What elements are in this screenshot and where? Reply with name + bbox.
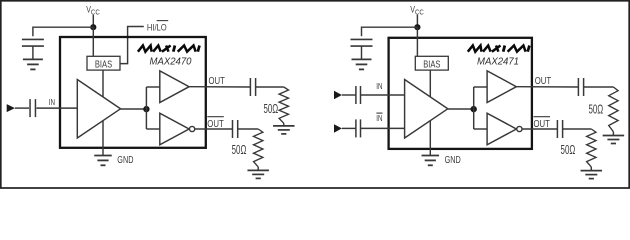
wire IN-bar cap to amplifier (MAX2471)	[361, 127, 405, 129]
amplifier triangle (MAX2470)	[77, 80, 120, 139]
label OUT-bar (MAX2471)	[534, 117, 551, 130]
wire VCC junction into BIAS (MAX2470)	[92, 27, 94, 56]
svg-text:IN: IN	[49, 97, 55, 107]
wire HI/LO control to BIAS (MAX2470)	[120, 27, 144, 64]
wire resistor to ground OUT (MAX2471)	[612, 132, 614, 136]
MAXIM logo (MAX2471)	[468, 46, 530, 52]
ground GND pin (MAX2471)	[422, 156, 440, 166]
amplifier triangle (MAX2471)	[405, 80, 448, 139]
wire IN-bar arrow to coupling cap (MAX2471)	[342, 127, 356, 129]
wire IN cap to amplifier (MAX2471)	[361, 94, 405, 96]
svg-text:BIAS: BIAS	[423, 58, 440, 69]
svg-text:50Ω: 50Ω	[561, 143, 576, 157]
junction dot output node (MAX2470)	[143, 106, 149, 112]
wire BIAS to amplifier (MAX2470)	[102, 70, 104, 97]
buffer triangle OUT (MAX2470)	[160, 71, 189, 103]
wire node to buffers vertical (MAX2470)	[145, 87, 147, 129]
buffer triangle OUT-bar (MAX2471)	[487, 113, 516, 145]
wire stub to OUT-bar buffer (MAX2470)	[146, 128, 159, 130]
wire resistor to ground OUT (MAX2470)	[283, 123, 285, 126]
svg-text:CC: CC	[91, 9, 100, 17]
wire BIAS to amplifier (MAX2471)	[429, 70, 431, 97]
capacitor OUT-bar coupling (MAX2471)	[557, 120, 562, 138]
junction dot VCC (MAX2470)	[90, 24, 96, 30]
buffer triangle OUT (MAX2471)	[487, 71, 516, 103]
wire resistor to ground OUT-bar (MAX2471)	[590, 167, 592, 171]
net VCC label (MAX2471)	[410, 5, 424, 17]
wire stub to OUT buffer (MAX2471)	[474, 86, 487, 88]
junction dot VCC (MAX2471)	[414, 24, 420, 30]
svg-text:BIAS: BIAS	[95, 58, 112, 69]
svg-text:50Ω: 50Ω	[232, 143, 247, 157]
label IN-bar (MAX2471)	[376, 113, 382, 123]
resistor 50 ohm OUT load (MAX2470)	[279, 87, 288, 123]
wire VCC junction to bypass cap (MAX2470)	[33, 27, 93, 36]
wire OUT buffer to coupling cap (MAX2471)	[516, 86, 578, 88]
capacitor OUT-bar coupling (MAX2470)	[233, 120, 238, 138]
input arrow IN-bar (MAX2471)	[334, 124, 342, 133]
wire amplifier ground pin (MAX2470)	[102, 120, 104, 155]
wire OUT-bar cap to load resistor (MAX2471)	[563, 128, 592, 130]
wire VCC junction into BIAS (MAX2471)	[416, 27, 418, 56]
svg-text:GND: GND	[445, 154, 461, 165]
wire VCC vertical to junction (MAX2470)	[92, 15, 94, 27]
wire amplifier ground pin (MAX2471)	[429, 120, 431, 155]
resistor 50 ohm OUT-bar load (MAX2470)	[254, 129, 263, 167]
net VCC label (MAX2470)	[86, 5, 100, 17]
wire amplifier output to node (MAX2471)	[448, 108, 474, 110]
capacitor IN coupling (MAX2471)	[356, 86, 361, 104]
BIAS block (MAX2471)	[415, 56, 448, 70]
frame border	[1, 1, 629, 188]
ground below bypass cap (MAX2471)	[352, 59, 372, 69]
inverter bubble (MAX2471)	[517, 126, 522, 131]
wire stub to OUT-bar buffer (MAX2471)	[474, 128, 487, 130]
inverter bubble (MAX2470)	[190, 126, 195, 131]
capacitor VCC bypass (MAX2471)	[351, 39, 373, 46]
wire VCC junction to bypass cap (MAX2471)	[362, 27, 418, 36]
wire VCC vertical to junction (MAX2471)	[416, 15, 418, 27]
label OUT-bar (MAX2470)	[207, 117, 224, 130]
junction dot output node (MAX2471)	[471, 106, 477, 112]
buffer triangle OUT-bar (MAX2470)	[160, 113, 189, 145]
capacitor IN-bar coupling (MAX2471)	[356, 119, 361, 137]
svg-text:LO: LO	[157, 22, 168, 33]
svg-text:GND: GND	[117, 154, 133, 165]
svg-text:IN: IN	[376, 81, 382, 91]
svg-text:OUT: OUT	[207, 118, 224, 129]
ground OUT load (MAX2471)	[603, 136, 625, 144]
svg-text:HI/: HI/	[147, 22, 157, 33]
ground OUT-bar load (MAX2471)	[581, 171, 603, 179]
BIAS block (MAX2470)	[87, 56, 120, 70]
wire OUT buffer to coupling cap (MAX2470)	[189, 86, 250, 88]
svg-text:OUT: OUT	[534, 118, 551, 129]
wire amplifier output to node (MAX2470)	[121, 108, 147, 110]
wire stub to OUT buffer (MAX2470)	[146, 86, 159, 88]
resistor 50 ohm OUT load (MAX2471)	[609, 87, 618, 132]
IC box U1 MAX2470	[60, 37, 206, 148]
MAXIM logo (MAX2470)	[138, 46, 200, 52]
svg-text:OUT: OUT	[209, 75, 226, 86]
ground GND pin (MAX2470)	[94, 156, 112, 166]
wire OUT-bar buffer to coupling cap (MAX2470)	[195, 128, 233, 130]
input arrow IN (MAX2471)	[334, 91, 342, 100]
wire OUT cap to load resistor (MAX2470)	[256, 86, 284, 88]
svg-text:IN: IN	[376, 113, 382, 123]
capacitor OUT coupling (MAX2470)	[250, 78, 255, 96]
IC box U1 MAX2471	[389, 38, 532, 149]
input arrow IN (MAX2470)	[7, 104, 15, 112]
capacitor IN coupling (MAX2470)	[30, 99, 35, 117]
capacitor VCC bypass (MAX2470)	[22, 39, 44, 46]
svg-text:50Ω: 50Ω	[263, 102, 278, 116]
wire resistor to ground OUT-bar (MAX2470)	[257, 167, 259, 171]
svg-text:50Ω: 50Ω	[588, 103, 603, 117]
wire IN arrow to coupling cap (MAX2471)	[342, 94, 356, 96]
svg-text:CC: CC	[415, 9, 424, 17]
wire IN arrow to coupling cap (MAX2470)	[15, 107, 29, 109]
svg-text:MAX2471: MAX2471	[477, 56, 519, 67]
capacitor OUT coupling (MAX2471)	[578, 78, 583, 96]
wire bypass cap to ground (MAX2471)	[361, 46, 363, 59]
ground OUT load (MAX2470)	[273, 126, 295, 134]
svg-text:MAX2470: MAX2470	[150, 56, 192, 67]
wire OUT-bar cap to load resistor (MAX2470)	[238, 128, 258, 130]
resistor 50 ohm OUT-bar load (MAX2471)	[587, 129, 596, 167]
wire node to buffers vertical (MAX2471)	[473, 87, 475, 129]
wire bypass cap to ground (MAX2470)	[32, 46, 34, 59]
wire OUT-bar buffer to coupling cap (MAX2471)	[522, 128, 557, 130]
label HI/LO (MAX2470)	[147, 21, 168, 33]
wire IN cap to amplifier (MAX2470)	[36, 107, 77, 109]
svg-text:OUT: OUT	[535, 75, 552, 86]
ground OUT-bar load (MAX2470)	[247, 170, 269, 178]
ground below bypass cap (MAX2470)	[23, 59, 43, 69]
wire OUT cap to load resistor (MAX2471)	[584, 86, 614, 88]
